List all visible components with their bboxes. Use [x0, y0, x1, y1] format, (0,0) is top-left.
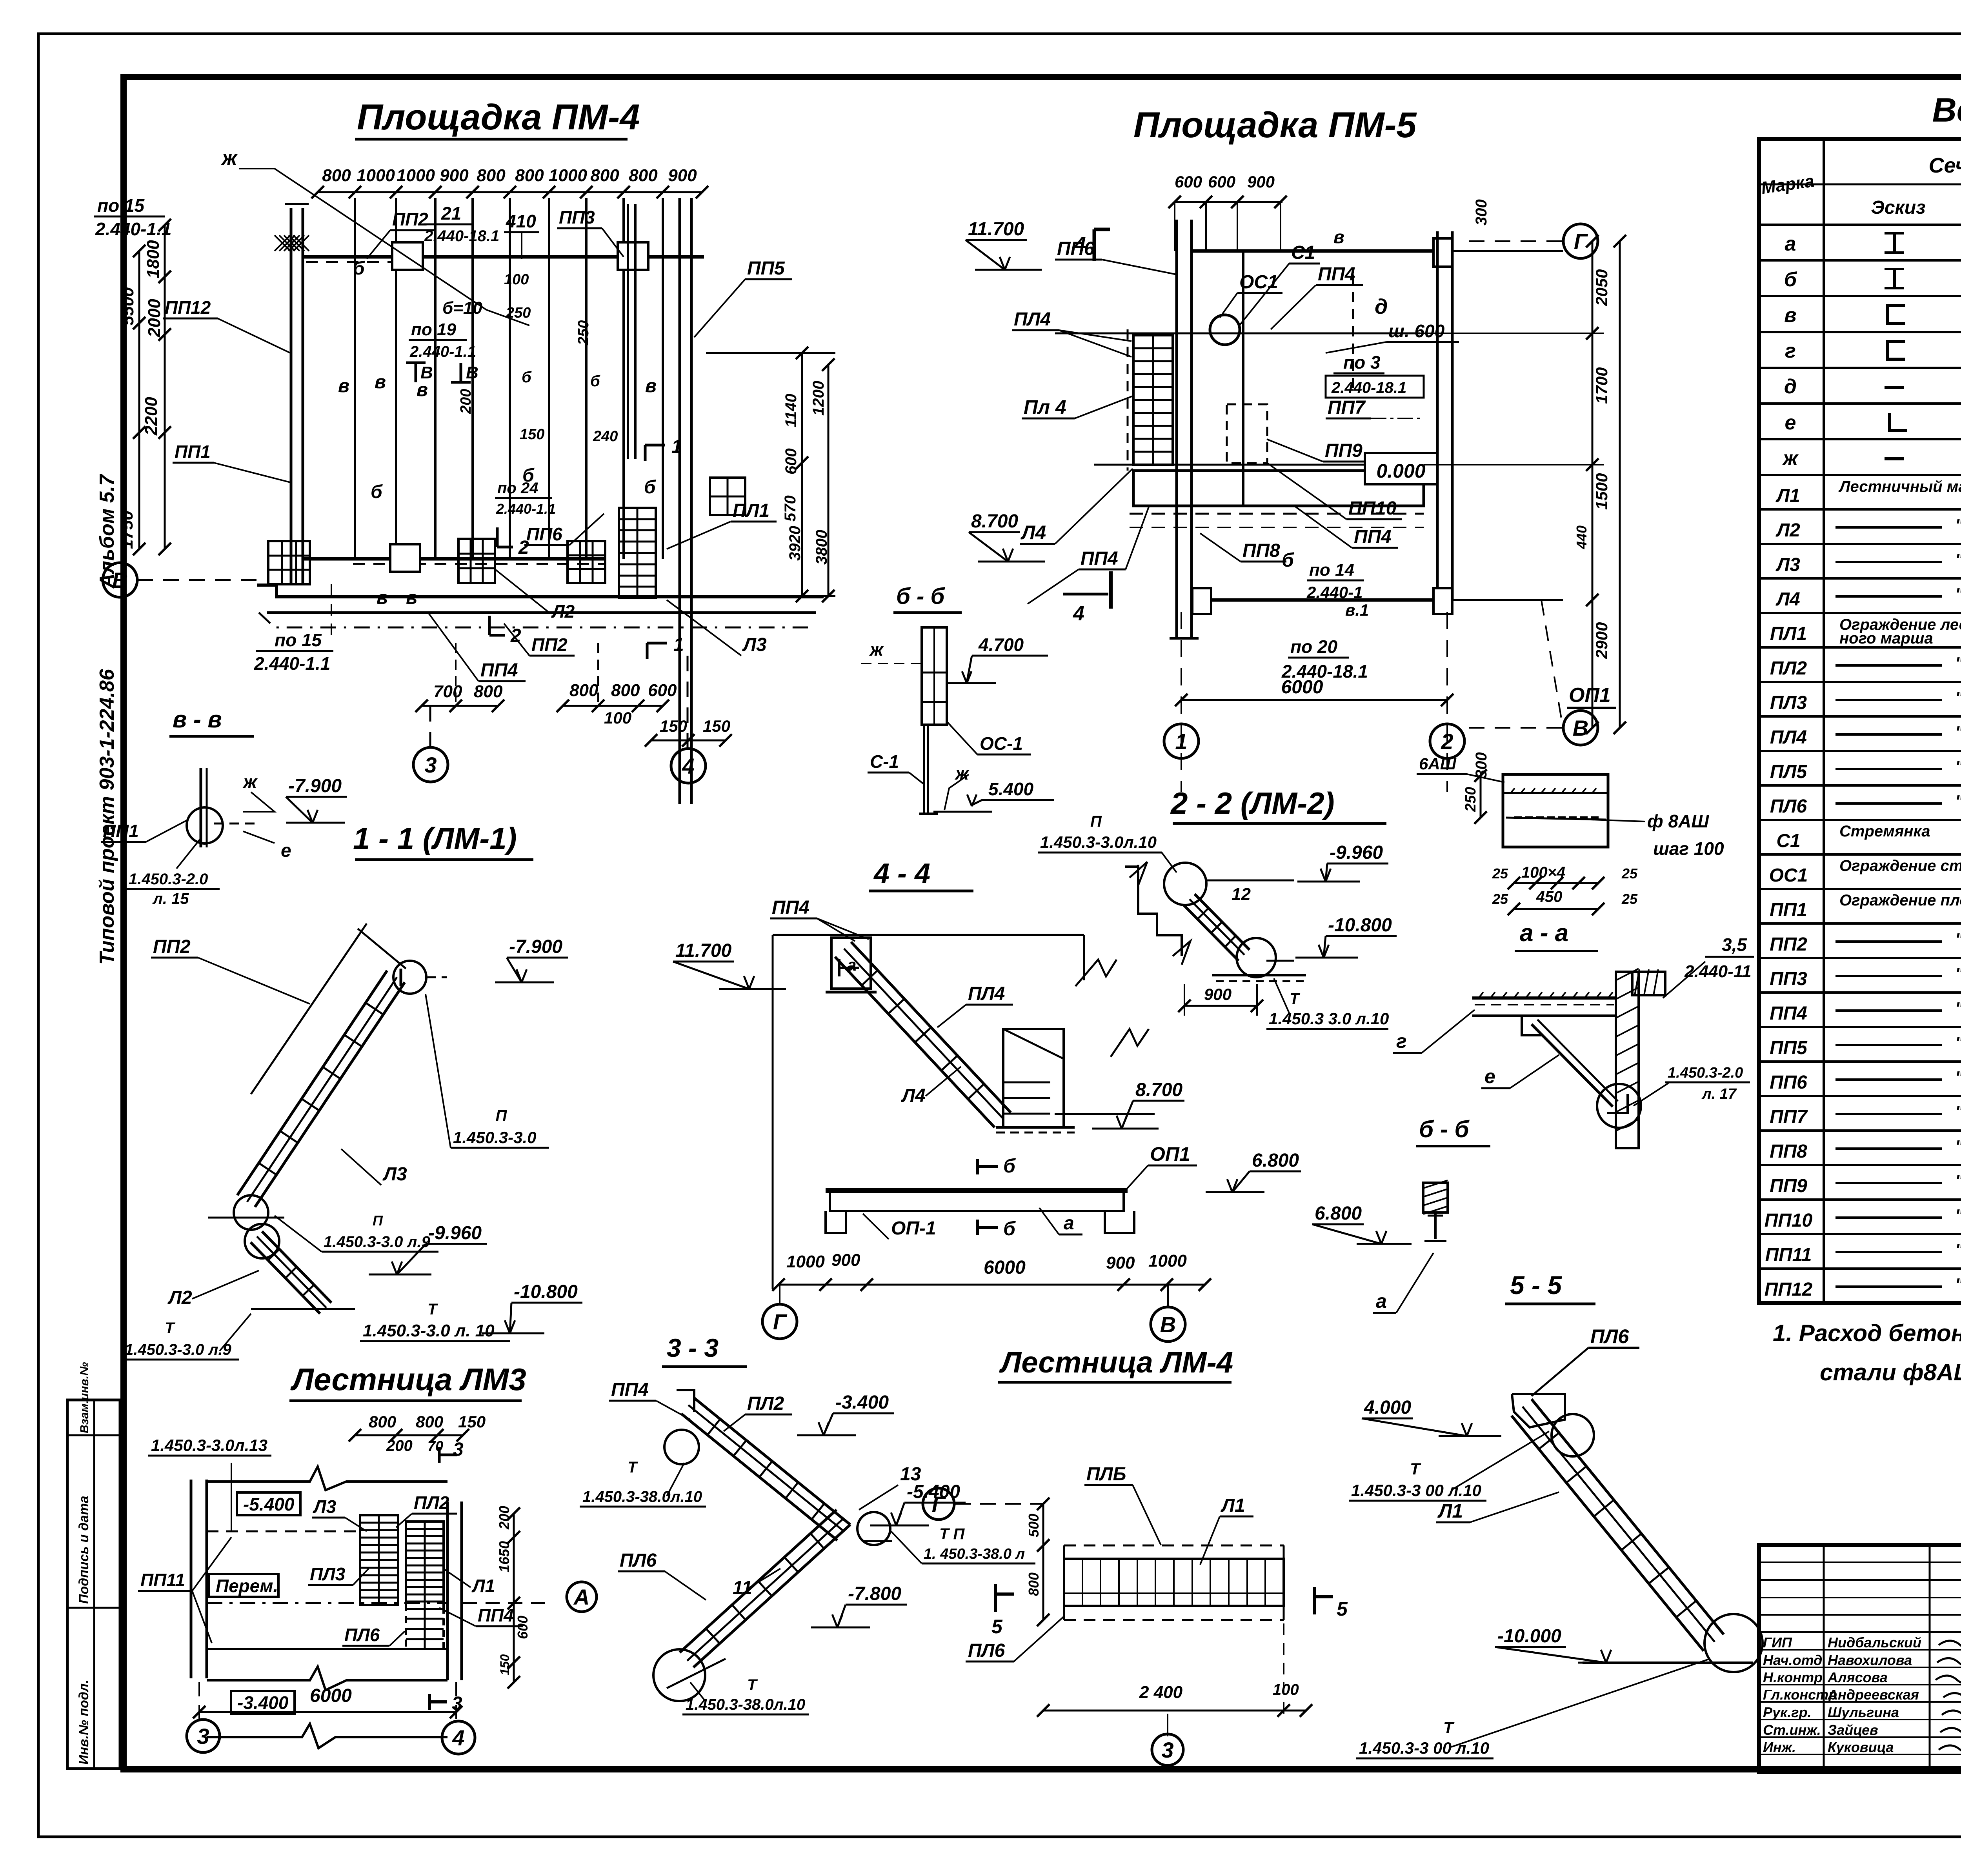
svg-text:3920: 3920: [786, 526, 804, 561]
2-2 foot line: [1212, 974, 1306, 976]
ПМ-5 top dims 600 600 900: [1175, 201, 1282, 203]
svg-text:а: а: [1785, 233, 1796, 255]
svg-text:": ": [1955, 585, 1961, 604]
4-4 break marks right: [1075, 960, 1117, 986]
svg-text:5: 5: [1337, 1598, 1348, 1620]
ЛМ-4 bubble Г: [923, 1488, 954, 1520]
svg-text:П: П: [496, 1107, 508, 1124]
svg-text:-5.400: -5.400: [243, 1494, 295, 1514]
ЛМ3 boxed -5.400: [237, 1492, 300, 1515]
svg-text:4: 4: [1073, 602, 1084, 625]
svg-text:Л1: Л1: [1221, 1495, 1245, 1516]
svg-text:1.450.3-3.0 л.9: 1.450.3-3.0 л.9: [125, 1341, 231, 1358]
svg-text:1. 450.3-38.0 л: 1. 450.3-38.0 л: [924, 1546, 1025, 1562]
svg-text:Площадка ПМ-5: Площадка ПМ-5: [1133, 105, 1417, 145]
svg-text:Нидбальский: Нидбальский: [1828, 1634, 1921, 1651]
3-3 top hook: [677, 1390, 694, 1412]
svg-text:ПП4: ПП4: [480, 660, 518, 681]
svg-text:": ": [1955, 1171, 1961, 1191]
table header grid: [1823, 139, 1825, 1303]
svg-text:ПП4: ПП4: [611, 1380, 649, 1400]
ПМ-5 bubble В: [1469, 727, 1563, 729]
ПМ-4 left dim chains: [138, 251, 140, 549]
svg-text:1500: 1500: [1592, 473, 1611, 510]
ЛМ3 stair Л3 plan: [360, 1515, 398, 1605]
svg-text:1.450.3-3.0л.13: 1.450.3-3.0л.13: [151, 1436, 267, 1454]
svg-text:450: 450: [1536, 888, 1563, 905]
svg-text:Взам.инв.№: Взам.инв.№: [78, 1362, 91, 1433]
svg-text:3: 3: [453, 1439, 464, 1460]
svg-text:800: 800: [569, 681, 598, 700]
svg-text:100: 100: [604, 709, 631, 727]
svg-text:150: 150: [498, 1654, 512, 1675]
svg-text:": ": [1955, 757, 1961, 776]
svg-text:ПП6: ПП6: [1770, 1072, 1807, 1093]
svg-text:": ": [1955, 999, 1961, 1018]
ПМ-5 main wall column: [1175, 220, 1178, 638]
svg-text:600: 600: [1175, 173, 1202, 191]
svg-text:Н.контр: Н.контр: [1763, 1669, 1823, 1685]
1-1 flight Л2: [262, 1231, 331, 1303]
svg-text:1800: 1800: [144, 240, 163, 278]
svg-text:": ": [1955, 792, 1961, 811]
svg-text:3: 3: [452, 1693, 462, 1714]
ЛМ-4 left dim: [1042, 1504, 1044, 1620]
1-1 guard rail: [251, 923, 367, 1094]
svg-text:Зайцев: Зайцев: [1828, 1722, 1878, 1738]
svg-text:ПЛ6: ПЛ6: [1770, 796, 1807, 817]
ЛМ3 bubble А: [567, 1582, 597, 1612]
svg-text:ПП2: ПП2: [531, 634, 568, 655]
svg-text:ПП5: ПП5: [747, 258, 785, 279]
ПМ-4 ground line: [257, 585, 824, 597]
svg-text:": ": [1955, 1240, 1961, 1260]
svg-text:900: 900: [1106, 1253, 1135, 1272]
svg-text:Т: Т: [1410, 1460, 1421, 1478]
svg-text:1 - 1 (ЛМ-1): 1 - 1 (ЛМ-1): [353, 821, 517, 856]
5-5 ladder Л1: [1532, 1399, 1724, 1634]
svg-text:": ": [1955, 1275, 1961, 1294]
svg-text:1750: 1750: [117, 511, 136, 549]
3-3 mid circle: [857, 1512, 890, 1545]
svg-text:-3.400: -3.400: [835, 1392, 889, 1413]
svg-text:ПЛ2: ПЛ2: [1770, 658, 1807, 679]
svg-text:Алясова: Алясова: [1827, 1669, 1888, 1685]
title block: left signature table: [1759, 1562, 1961, 1563]
svg-text:11.700: 11.700: [675, 940, 732, 961]
5-5 top circle: [1552, 1414, 1594, 1456]
svg-text:-7.900: -7.900: [509, 936, 562, 957]
svg-text:800: 800: [629, 166, 658, 185]
ПМ-4 block Л2: [568, 541, 605, 583]
2-2 stair Л: [1195, 894, 1250, 950]
б-б small I-beam detail: [1423, 1183, 1448, 1212]
svg-text:900: 900: [440, 166, 469, 185]
а-а dim 250: [1480, 776, 1482, 818]
svg-text:С1: С1: [1291, 242, 1315, 263]
svg-text:по 14: по 14: [1309, 560, 1354, 580]
svg-text:Ведомость элементов.: Ведомость элементов.: [1932, 91, 1961, 129]
svg-text:250: 250: [506, 305, 531, 321]
svg-text:800: 800: [590, 166, 619, 185]
svg-text:по 15: по 15: [97, 195, 145, 216]
svg-text:б: б: [590, 373, 600, 390]
svg-text:ПП2: ПП2: [392, 209, 428, 229]
svg-text:2.440-1.1: 2.440-1.1: [95, 219, 171, 239]
svg-text:4 - 4: 4 - 4: [873, 858, 930, 889]
svg-text:21: 21: [441, 203, 461, 224]
ПМ-4 hatch patch: [275, 235, 290, 251]
svg-text:Л1: Л1: [1775, 485, 1800, 506]
ЛМ3 stair Л1 plan: [406, 1522, 444, 1609]
svg-text:3: 3: [197, 1724, 209, 1749]
ПМ-4 top beam б with joints: [304, 255, 704, 259]
svg-text:": ": [1955, 1102, 1961, 1122]
svg-text:2000: 2000: [145, 299, 164, 338]
svg-text:по 19: по 19: [411, 320, 456, 339]
svg-text:2900: 2900: [1592, 622, 1611, 659]
ПМ-5 bubble 1: [1164, 724, 1199, 758]
ПМ-4 middle beam б with joint: [304, 557, 606, 561]
svg-text:ПЛ2: ПЛ2: [747, 1393, 784, 1414]
svg-text:3800: 3800: [813, 530, 830, 565]
svg-text:100: 100: [504, 271, 529, 288]
svg-text:ПП4: ПП4: [772, 897, 810, 918]
svg-text:2: 2: [518, 537, 529, 558]
svg-text:Типовой проект 903-1-224.86: Типовой проект 903-1-224.86: [96, 669, 118, 965]
svg-text:в.1: в.1: [1345, 601, 1369, 619]
svg-text:ПП12: ПП12: [165, 297, 211, 318]
svg-text:б: б: [371, 482, 383, 502]
svg-text:800: 800: [322, 166, 351, 185]
svg-text:Т: Т: [165, 1320, 176, 1337]
svg-text:Навохилова: Навохилова: [1828, 1652, 1912, 1668]
4-4 bubble Г: [779, 1285, 780, 1305]
svg-text:": ": [1955, 550, 1961, 569]
б-б stremyanka ladder С1: [922, 627, 947, 725]
svg-text:2.440-1: 2.440-1: [1306, 583, 1363, 602]
4-4 section mark б upper: [976, 1159, 979, 1174]
svg-text:1. Расход бетона М 200: 1. Расход бетона М 200 на ОП-1 0,1 м: [1773, 1320, 1961, 1346]
svg-text:250: 250: [1463, 787, 1479, 812]
svg-text:Инж.: Инж.: [1763, 1739, 1796, 1755]
ПМ-4 left wall column: [290, 208, 293, 584]
svg-text:4: 4: [682, 754, 694, 778]
svg-text:Л1: Л1: [471, 1576, 495, 1596]
4-4 bottom landing: [1003, 1029, 1064, 1127]
svg-text:1: 1: [1175, 729, 1187, 754]
svg-text:2200: 2200: [142, 397, 161, 436]
svg-text:8.700: 8.700: [1135, 1080, 1182, 1100]
svg-text:по 3: по 3: [1343, 352, 1381, 373]
svg-text:А: А: [573, 1585, 589, 1609]
svg-text:Л4: Л4: [1775, 589, 1800, 610]
svg-text:700: 700: [433, 682, 462, 701]
svg-text:": ": [1955, 516, 1961, 535]
svg-text:410: 410: [506, 211, 536, 231]
ЛМ3 lower plan edge: [207, 1724, 448, 1748]
ЛМ3 bubble 4: [442, 1721, 475, 1754]
svg-text:800: 800: [477, 166, 506, 185]
svg-text:6000: 6000: [310, 1685, 352, 1706]
svg-text:6АШ: 6АШ: [1419, 754, 1457, 773]
ПМ-4 section marks В top: [415, 363, 417, 382]
svg-text:Лестница ЛМ-4: Лестница ЛМ-4: [999, 1346, 1233, 1379]
ЛМ3 stair ПЛ6 plan: [406, 1609, 444, 1649]
ПМ-5 top beam в: [1192, 249, 1433, 253]
svg-text:": ": [1955, 1068, 1961, 1087]
svg-text:ПП11: ПП11: [140, 1570, 185, 1590]
svg-text:в: в: [375, 372, 386, 393]
svg-text:Г: Г: [932, 1492, 946, 1516]
svg-text:2050: 2050: [1592, 269, 1611, 306]
svg-text:-10.000: -10.000: [1497, 1626, 1561, 1647]
бб-bracket diagonal tie: [1532, 1024, 1613, 1107]
svg-text:150: 150: [458, 1412, 486, 1431]
svg-text:Гл.констр: Гл.констр: [1763, 1687, 1837, 1703]
svg-text:ОС1: ОС1: [1769, 865, 1808, 886]
svg-text:Л2: Л2: [1775, 520, 1800, 541]
2-2 dim 900: [1184, 1005, 1257, 1007]
svg-text:б - б: б - б: [1419, 1116, 1470, 1142]
svg-text:ПП4: ПП4: [1318, 264, 1355, 285]
svg-text:Т: Т: [747, 1676, 758, 1694]
svg-text:шаг 100: шаг 100: [1653, 838, 1724, 859]
svg-text:ПП7: ПП7: [1770, 1107, 1808, 1127]
svg-text:ОС-1: ОС-1: [980, 733, 1023, 754]
svg-text:100×4: 100×4: [1521, 864, 1565, 881]
svg-text:2: 2: [1441, 729, 1453, 754]
svg-text:Пл 4: Пл 4: [1024, 396, 1066, 418]
svg-text:6.800: 6.800: [1252, 1150, 1299, 1171]
svg-text:1.450.3-2.0: 1.450.3-2.0: [1668, 1065, 1743, 1081]
svg-text:1000: 1000: [397, 166, 435, 185]
svg-text:0.000: 0.000: [1376, 460, 1425, 482]
svg-text:ПП10: ПП10: [1765, 1210, 1813, 1231]
svg-text:Ст.инж.: Ст.инж.: [1763, 1722, 1821, 1738]
ПМ-5 section cut 4 bottom: [1063, 593, 1108, 596]
4-4 stair Л4: [851, 942, 1011, 1113]
svg-text:2.440-1.1: 2.440-1.1: [254, 653, 330, 674]
svg-text:": ": [1955, 1206, 1961, 1225]
svg-text:8.700: 8.700: [971, 511, 1018, 532]
4-4 top landing box: [831, 938, 871, 989]
svg-text:е: е: [1785, 411, 1796, 434]
ЛМ-4 bubble 3: [1167, 1714, 1168, 1736]
svg-text:ОП1: ОП1: [1150, 1143, 1190, 1165]
svg-text:б: б: [1003, 1218, 1016, 1240]
ПМ-5 right dim chains: [1592, 241, 1594, 728]
svg-text:ного марша: ного марша: [1839, 630, 1933, 647]
svg-text:Сечение: Сечение: [1929, 154, 1961, 177]
svg-text:В: В: [112, 568, 128, 593]
svg-text:г: г: [1785, 340, 1796, 362]
svg-text:Нач.отд: Нач.отд: [1763, 1652, 1822, 1668]
svg-text:Т: Т: [427, 1301, 438, 1318]
svg-text:4.000: 4.000: [1364, 1397, 1411, 1418]
svg-text:4.700: 4.700: [978, 634, 1024, 655]
svg-text:по 20: по 20: [1290, 636, 1338, 657]
svg-text:600: 600: [782, 448, 800, 474]
ЛМ3 plan outline: [190, 1480, 193, 1678]
2-2 bottom circle: [1237, 938, 1276, 977]
5-5 ground line: [1583, 1661, 1753, 1664]
svg-text:л. 17: л. 17: [1701, 1086, 1737, 1102]
svg-text:5500: 5500: [118, 287, 137, 325]
svg-text:-9.960: -9.960: [428, 1223, 482, 1243]
svg-text:12: 12: [1232, 885, 1251, 904]
svg-text:Ограждение площадки: Ограждение площадки: [1839, 892, 1961, 909]
ПМ-5 stair ПЛ4 plan: [1133, 335, 1173, 465]
svg-text:ПП6: ПП6: [1057, 238, 1095, 259]
svg-text:ж: ж: [1782, 447, 1799, 470]
ПМ-5 bubble 2: [1430, 724, 1464, 758]
svg-text:б: б: [522, 369, 532, 386]
svg-text:в - в: в - в: [173, 706, 222, 733]
svg-text:б: б: [1003, 1155, 1016, 1177]
svg-text:": ": [1955, 688, 1961, 707]
svg-text:ПЛ3: ПЛ3: [310, 1564, 346, 1584]
svg-text:ПЛ3: ПЛ3: [1770, 693, 1807, 713]
svg-text:ж: ж: [954, 763, 970, 783]
svg-text:": ": [1955, 1033, 1961, 1053]
svg-text:С1: С1: [1776, 831, 1800, 851]
svg-text:г: г: [1396, 1030, 1407, 1052]
svg-text:6.800: 6.800: [1315, 1203, 1362, 1224]
ПМ-5 bottom beam: [1192, 598, 1433, 602]
бб-bracket bottom circle: [1597, 1084, 1641, 1128]
svg-text:ПП3: ПП3: [1770, 969, 1807, 989]
svg-text:Эскиз: Эскиз: [1871, 197, 1925, 218]
3-3 lower flight: [693, 1525, 850, 1667]
svg-text:Стремянка: Стремянка: [1839, 823, 1930, 840]
svg-text:ПП4: ПП4: [1354, 527, 1392, 547]
svg-text:ПЛБ: ПЛБ: [1086, 1464, 1126, 1485]
svg-text:Г: Г: [773, 1309, 788, 1334]
ПМ-4 right dim chains: [801, 353, 803, 596]
1-1 bottom circles: [234, 1195, 268, 1230]
4-4 section mark б lower: [976, 1220, 979, 1235]
3-3 upper flight: [694, 1398, 850, 1525]
svg-text:1.450.3-3.0 л.9: 1.450.3-3.0 л.9: [324, 1233, 430, 1251]
svg-text:Инв.№ подл.: Инв.№ подл.: [76, 1680, 91, 1765]
svg-text:Площадка ПМ-4: Площадка ПМ-4: [357, 97, 640, 137]
svg-text:ПЛ2: ПЛ2: [414, 1492, 449, 1513]
svg-text:С-1: С-1: [870, 751, 899, 772]
svg-text:3,5: 3,5: [1722, 934, 1747, 955]
ПМ-4 vertical beams в: [354, 198, 356, 559]
svg-text:л. 15: л. 15: [152, 890, 189, 907]
svg-text:-10.800: -10.800: [514, 1282, 578, 1302]
svg-text:Л2: Л2: [167, 1287, 192, 1308]
ПМ-4 column bubble 4: [687, 656, 689, 748]
svg-text:5: 5: [991, 1616, 1003, 1638]
svg-text:ПП8: ПП8: [1242, 540, 1280, 561]
svg-text:2.440-1.1: 2.440-1.1: [409, 343, 476, 360]
svg-text:200: 200: [458, 389, 474, 414]
svg-text:1.450.3-38.0л.10: 1.450.3-38.0л.10: [582, 1488, 702, 1505]
svg-text:В: В: [466, 363, 478, 382]
svg-text:-7.900: -7.900: [288, 776, 342, 796]
svg-text:1200: 1200: [810, 381, 827, 416]
svg-text:6000: 6000: [984, 1257, 1026, 1278]
5-5 bottom circle: [1705, 1614, 1763, 1672]
svg-text:25: 25: [1621, 865, 1638, 882]
svg-text:ПЛ5: ПЛ5: [1770, 762, 1808, 782]
svg-text:1.450.3-3.0л.10: 1.450.3-3.0л.10: [1040, 833, 1157, 851]
ЛМ-4 plan ladder: [1064, 1545, 1284, 1547]
svg-text:ж: ж: [221, 147, 238, 169]
svg-text:Л4: Л4: [1021, 522, 1046, 544]
svg-text:а: а: [1064, 1213, 1074, 1234]
svg-text:900: 900: [1247, 173, 1275, 191]
svg-text:": ": [1955, 930, 1961, 949]
svg-text:ф 8АШ: ф 8АШ: [1647, 811, 1709, 831]
1-1 top joint circle: [393, 961, 426, 994]
ПМ-4 right small blocks: [710, 478, 745, 515]
svg-text:ПП11: ПП11: [1765, 1245, 1812, 1265]
svg-text:а: а: [1376, 1290, 1387, 1312]
ПМ-4 right stringer pair: [679, 198, 681, 804]
svg-text:Куковица: Куковица: [1828, 1739, 1894, 1755]
svg-text:": ": [1955, 1137, 1961, 1156]
svg-text:1000: 1000: [786, 1252, 825, 1271]
svg-text:ПЛ4: ПЛ4: [1770, 727, 1807, 748]
svg-text:-10.800: -10.800: [1328, 915, 1392, 936]
svg-text:Л3: Л3: [313, 1496, 337, 1517]
svg-text:900: 900: [1204, 985, 1232, 1003]
svg-text:в: в: [1784, 304, 1796, 327]
table outer box: [1759, 139, 1961, 1303]
svg-text:Л3: Л3: [1775, 554, 1800, 575]
svg-text:Т: Т: [1290, 990, 1301, 1007]
svg-text:70: 70: [427, 1438, 443, 1454]
ПМ-4 column bubble 3: [429, 706, 431, 747]
svg-text:200: 200: [386, 1437, 413, 1454]
svg-text:ПЛ4: ПЛ4: [1014, 309, 1051, 330]
table rows а-ж: [1759, 259, 1961, 262]
svg-text:1.450.3-3.0: 1.450.3-3.0: [453, 1128, 537, 1147]
svg-text:2.440-18.1: 2.440-18.1: [1331, 379, 1406, 396]
svg-text:ПЛ1: ПЛ1: [733, 500, 769, 521]
svg-text:ПП4: ПП4: [1770, 1003, 1807, 1024]
ПМ-5 upper platform edge: [1055, 333, 1420, 334]
ПМ-4 section marks 1: [645, 444, 665, 447]
svg-text:Л2: Л2: [551, 601, 575, 622]
svg-text:2.440-1.1: 2.440-1.1: [496, 501, 556, 517]
svg-text:500: 500: [1026, 1514, 1042, 1537]
svg-text:в: в: [1333, 227, 1344, 247]
title block frame: [1759, 1545, 1961, 1772]
2-2 wall profile: [1138, 865, 1182, 956]
ПМ-4 block: [458, 539, 495, 583]
svg-text:600: 600: [648, 681, 677, 700]
svg-text:Л4: Л4: [901, 1085, 926, 1106]
ЛМ3 boxed Перем.: [209, 1574, 278, 1597]
svg-text:800: 800: [416, 1412, 443, 1431]
svg-text:1.450.3 3.0 л.10: 1.450.3 3.0 л.10: [1269, 1009, 1389, 1028]
svg-text:Рук.гр.: Рук.гр.: [1763, 1704, 1812, 1720]
svg-text:1000: 1000: [549, 166, 587, 185]
svg-text:570: 570: [782, 495, 799, 522]
svg-text:": ": [1955, 964, 1961, 983]
svg-text:ПЛ6: ПЛ6: [620, 1550, 657, 1571]
svg-text:900: 900: [831, 1251, 860, 1270]
svg-text:ПП7: ПП7: [1328, 397, 1366, 418]
svg-text:ОП-1: ОП-1: [891, 1218, 936, 1239]
svg-text:1700: 1700: [1592, 367, 1611, 404]
svg-text:ПП6: ПП6: [526, 524, 562, 544]
